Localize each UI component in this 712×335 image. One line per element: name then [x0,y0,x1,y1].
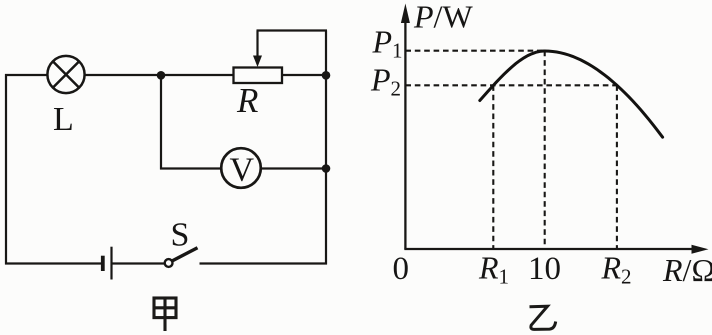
wire: rheostat to node B [282,74,326,76]
wire: battery to switch [112,262,166,264]
node C (junction dot on right rail) [322,164,331,173]
x-axis R (with arrowhead) [404,245,708,254]
svg-text:R2: R2 [601,250,632,289]
dashed line: vertical at R1 [492,85,494,248]
label jia (Chinese caption of circuit) [154,298,176,331]
label yi (Chinese caption of graph) [530,306,556,329]
battery cell (long thin positive plate) [110,247,112,280]
dashed line: vertical at R2 [616,85,618,248]
svg-text:S: S [171,217,190,254]
y-axis P (with arrowhead) [401,4,410,250]
dashed line: vertical at 10 [544,51,546,248]
battery cell (short thick negative plate) [101,256,105,271]
node A (junction dot, top of voltmeter branch) [157,71,166,80]
resistor R (rheostat body) [234,68,283,84]
wire: node A to rheostat [161,74,234,76]
wire: switch to right rail [200,262,328,264]
wiper arrow of rheostat [253,31,262,68]
wire: voltmeter to node C [261,167,326,169]
lamp L (circle with X) [47,56,84,93]
dashed line: P2 level to R2 point [405,84,617,86]
svg-text:R/Ω: R/Ω [662,252,712,288]
wire: lamp to node A [85,74,162,76]
node B (junction dot, right end of top rail) [322,71,331,80]
svg-text:V: V [230,152,255,189]
svg-text:P1: P1 [372,24,403,63]
switch S (pivot and blade) [165,248,198,267]
dashed line: P1 level to curve peak [405,50,545,52]
wire: bottom rail left segment to battery [5,262,102,264]
curve: P vs R characteristic [480,51,663,137]
svg-text:P/W: P/W [413,0,473,35]
svg-text:R: R [236,81,258,120]
svg-text:0: 0 [393,251,410,287]
wire: voltmeter branch horizontal left [160,167,221,169]
voltmeter V (U1) [221,148,261,188]
svg-text:R1: R1 [478,250,509,289]
wire: right vertical rail [325,31,327,265]
wire: wiper top wire to right rail [257,29,328,31]
wire: voltmeter branch vertical [160,75,162,170]
svg-text:P2: P2 [370,62,401,101]
svg-text:L: L [53,101,74,138]
wire: left vertical side of loop [5,74,7,265]
wire: top rail left segment to lamp [5,74,48,76]
svg-text:10: 10 [528,251,561,287]
